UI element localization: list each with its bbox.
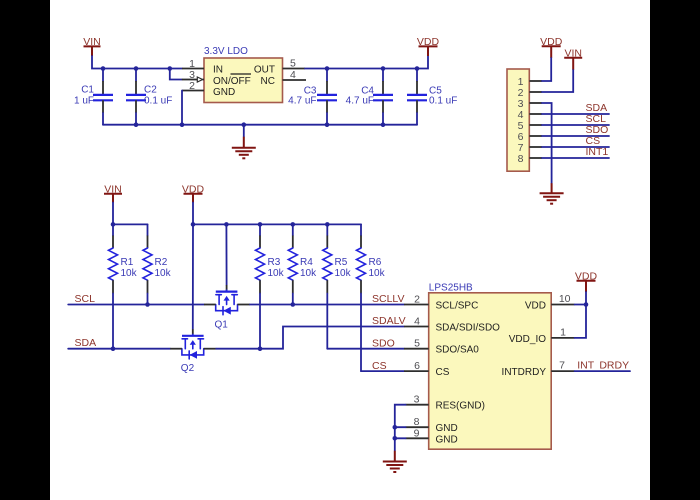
- wire RES and GND pins to ground: [395, 405, 406, 451]
- wire VDD to pin 10: [575, 304, 586, 306]
- svg-text:4: 4: [290, 69, 296, 81]
- svg-text:SDO/SA0: SDO/SA0: [436, 345, 480, 356]
- svg-text:R1: R1: [121, 257, 134, 268]
- pin 6 CS: [404, 370, 429, 372]
- svg-text:SCLLV: SCLLV: [372, 293, 405, 305]
- svg-text:GND: GND: [213, 87, 235, 98]
- power flag VDD (top, above C5): [417, 36, 440, 56]
- resistor R3 10k: [256, 224, 285, 293]
- wire VDD output bus: [305, 56, 428, 69]
- wire net INT_DRDY: [575, 370, 630, 372]
- power flag VIN (connector pin 2): [564, 47, 582, 70]
- wire GND pin 9 stub: [395, 437, 406, 439]
- pin 2 GND: [182, 90, 204, 92]
- wire net SDA: [68, 348, 170, 350]
- power flag VDD (connector pin 1): [540, 36, 563, 58]
- power flag VIN (top-left): [83, 36, 101, 56]
- node junction VIN bus / ON-OFF branch: [168, 66, 173, 71]
- node junction VDD bus / R5: [325, 222, 330, 227]
- svg-text:IN: IN: [213, 65, 223, 76]
- wire VDD pullup bus: [193, 203, 361, 225]
- svg-text:SDO: SDO: [372, 337, 395, 349]
- svg-text:LPS25HB: LPS25HB: [429, 283, 473, 294]
- svg-text:INT1: INT1: [586, 146, 609, 158]
- wire net SCL (pin 5): [542, 124, 609, 126]
- svg-text:4: 4: [414, 315, 420, 327]
- wire VDD to sensor pins 10 and 1: [575, 292, 586, 338]
- svg-text:0.1 uF: 0.1 uF: [429, 96, 457, 107]
- wire VDD bus to Q1 gate: [225, 224, 227, 285]
- svg-text:OUT: OUT: [254, 65, 275, 76]
- svg-text:INT DRDY: INT DRDY: [577, 360, 629, 372]
- wire net SDA (pin 4): [542, 113, 609, 115]
- wire R2 to SCL: [147, 294, 149, 305]
- svg-text:10k: 10k: [121, 268, 138, 279]
- svg-text:10k: 10k: [335, 268, 352, 279]
- svg-text:2: 2: [189, 80, 195, 92]
- wire net SDO (pin 6): [542, 135, 609, 137]
- svg-text:VDD: VDD: [525, 301, 546, 312]
- power flag VIN (lower section): [104, 183, 122, 202]
- pin 1 IN: [182, 68, 204, 70]
- svg-text:10k: 10k: [369, 268, 386, 279]
- node junction VDD bus / R3: [258, 222, 263, 227]
- pin 3 RES(GND): [406, 404, 429, 406]
- svg-text:VDD_IO: VDD_IO: [509, 334, 546, 345]
- pin 4 stub: [529, 113, 542, 115]
- svg-text:10k: 10k: [300, 268, 317, 279]
- svg-text:R3: R3: [268, 257, 281, 268]
- svg-text:10k: 10k: [268, 268, 285, 279]
- node junction VDD bus / R4: [291, 222, 296, 227]
- pin 2 SCL/SPC: [404, 304, 429, 306]
- svg-text:SCL: SCL: [75, 293, 96, 305]
- wire R1 to SDA: [112, 294, 114, 349]
- svg-text:R5: R5: [335, 257, 348, 268]
- regulator U1 3.3V LDO: [204, 46, 283, 103]
- ground (top section): [232, 125, 256, 159]
- svg-text:Q2: Q2: [181, 363, 195, 374]
- wire R3 to SDALV: [259, 294, 261, 349]
- svg-text:RES(GND): RES(GND): [436, 401, 485, 412]
- svg-text:SDA/SDI/SDO: SDA/SDI/SDO: [436, 323, 501, 334]
- wire GND pin 8 stub: [395, 426, 406, 428]
- svg-text:R6: R6: [369, 257, 382, 268]
- ground (connector): [540, 183, 564, 204]
- wire net SDALV: [216, 327, 404, 349]
- node junction VIN bus / C1: [101, 66, 106, 71]
- wire R6 to CS: [360, 294, 362, 372]
- svg-text:CS: CS: [436, 367, 450, 378]
- node junction VDD bus / C5: [415, 66, 420, 71]
- wire net INT1 (pin 8): [542, 157, 609, 159]
- wire VDD to Q2 gate: [192, 224, 194, 329]
- svg-text:R2: R2: [155, 257, 168, 268]
- wire R5 to SDO: [326, 294, 328, 349]
- pin 8 stub: [529, 157, 542, 159]
- pin 8 GND: [406, 426, 429, 428]
- svg-text:SDALV: SDALV: [372, 315, 406, 327]
- transistor Q2 MOSFET level shifter (SDA): [170, 329, 216, 374]
- capacitor C5 0.1uF: [407, 69, 457, 125]
- capacitor C3 4.7uF: [288, 69, 337, 125]
- svg-text:4.7 uF: 4.7 uF: [346, 96, 374, 107]
- svg-text:10k: 10k: [155, 268, 172, 279]
- resistor R5 10k: [323, 224, 352, 293]
- pin 4 NC stub: [283, 79, 307, 81]
- wire net SCL: [68, 304, 204, 306]
- node junction VDD bus / Q2 gate: [191, 222, 196, 227]
- wire net CS (pin 7): [542, 146, 609, 148]
- pin 5 OUT: [283, 68, 306, 70]
- svg-text:GND: GND: [436, 423, 458, 434]
- pin 9 GND: [406, 437, 429, 439]
- svg-text:6: 6: [414, 360, 420, 372]
- pin 1 stub: [529, 80, 542, 82]
- svg-text:8: 8: [518, 153, 524, 165]
- node junction ground bus / ground symbol: [242, 122, 247, 127]
- node junction ground bus / C2: [134, 122, 139, 127]
- pin 5 stub: [529, 124, 542, 126]
- svg-text:5: 5: [414, 338, 420, 350]
- node junction ground bus / C4: [381, 122, 386, 127]
- node junction ground bus / C3: [325, 122, 330, 127]
- svg-text:INTDRDY: INTDRDY: [502, 367, 547, 378]
- wire LDO GND to ground bus: [181, 91, 183, 125]
- capacitor C4 4.7uF: [346, 69, 393, 125]
- svg-text:1 uF: 1 uF: [74, 96, 94, 107]
- capacitor C2 0.1uF: [126, 69, 172, 125]
- node junction R2 / SCL: [145, 302, 150, 307]
- wire VIN to input bus: [92, 56, 182, 69]
- svg-text:R4: R4: [300, 257, 313, 268]
- svg-text:C1: C1: [81, 85, 94, 96]
- node junction R3 / SDALV: [258, 346, 263, 351]
- transistor Q1 MOSFET level shifter (SCL): [204, 285, 250, 330]
- node junction ground bus / LDO GND: [180, 122, 185, 127]
- svg-text:3: 3: [414, 394, 420, 406]
- svg-text:2: 2: [414, 293, 420, 305]
- svg-text:Q1: Q1: [215, 319, 229, 330]
- power flag VDD (lower section): [182, 183, 205, 202]
- svg-text:SDA: SDA: [75, 337, 97, 349]
- sensor U2 LPS25HB: [429, 283, 552, 450]
- svg-text:3.3V LDO: 3.3V LDO: [204, 46, 248, 57]
- wire VIN pullup bus: [113, 203, 148, 225]
- node junction ground / pin 9: [393, 436, 398, 441]
- pin 5 SDO/SA0: [404, 348, 429, 350]
- pin 7 stub: [529, 146, 542, 148]
- svg-text:4.7 uF: 4.7 uF: [288, 96, 316, 107]
- pin 1 VDD_IO: [551, 337, 574, 339]
- node junction VIN bus / C2: [134, 66, 139, 71]
- svg-text:1: 1: [560, 326, 566, 338]
- wire VDD to pin 1: [542, 58, 551, 81]
- pin 4 SDA/SDI/SDO: [404, 326, 429, 328]
- svg-text:7: 7: [559, 360, 565, 372]
- pin 3 stub: [529, 102, 542, 104]
- node junction VIN bus / R1: [111, 222, 116, 227]
- wire R4 to SCLLV: [292, 294, 294, 305]
- svg-text:NC: NC: [261, 76, 275, 87]
- svg-text:C2: C2: [144, 85, 157, 96]
- svg-text:10: 10: [559, 293, 571, 305]
- svg-text:5: 5: [290, 58, 296, 70]
- capacitor C1 1uF: [74, 69, 113, 125]
- resistor R4 10k: [288, 224, 317, 293]
- svg-text:CS: CS: [372, 360, 387, 372]
- svg-text:ON/OFF: ON/OFF: [213, 76, 251, 87]
- node junction ground / pin 8: [393, 425, 398, 430]
- pin 2 stub: [529, 91, 542, 93]
- pin 6 stub: [529, 135, 542, 137]
- connector J1 8-pin header: [507, 69, 529, 171]
- power flag VDD (sensor): [575, 270, 598, 292]
- svg-text:GND: GND: [436, 434, 458, 445]
- node junction VDD bus / C3: [325, 66, 330, 71]
- svg-text:0.1 uF: 0.1 uF: [144, 96, 172, 107]
- node junction VDD bus / C4: [381, 66, 386, 71]
- wire branch to LDO pin 3: [170, 69, 182, 80]
- wire pin 3 to ground: [542, 103, 552, 183]
- resistor R6 10k: [357, 224, 386, 293]
- wire VIN to pin 2: [542, 70, 573, 92]
- svg-text:SCL/SPC: SCL/SPC: [436, 301, 479, 312]
- wire net SCLLV: [250, 304, 404, 306]
- ground (sensor): [383, 451, 407, 472]
- resistor R1 10k: [109, 224, 138, 293]
- pin 3 ON/OFF with input arrow: [182, 69, 204, 82]
- node junction VDD / pin 10: [584, 302, 589, 307]
- wire net SDO (to sensor): [327, 348, 404, 350]
- wire ground bus (top section): [103, 124, 417, 126]
- wire net CS (to sensor): [361, 370, 404, 372]
- resistor R2 10k: [143, 224, 172, 293]
- node junction R4 / SCLLV: [291, 302, 296, 307]
- node junction VDD bus / Q1 gate: [224, 222, 229, 227]
- node junction R1 / SDA: [111, 346, 116, 351]
- pin 10 VDD: [551, 304, 574, 306]
- svg-text:9: 9: [414, 427, 420, 439]
- pin 7 INTDRDY: [551, 370, 574, 372]
